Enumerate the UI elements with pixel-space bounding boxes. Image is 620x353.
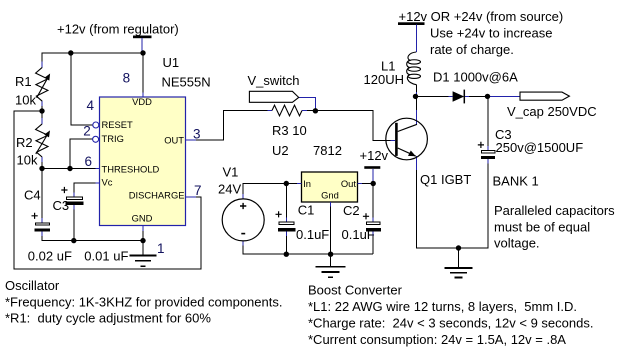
svg-text:D1 1000v@6A: D1 1000v@6A <box>433 70 518 85</box>
svg-text:Boost Converter: Boost Converter <box>308 282 403 297</box>
svg-text:8: 8 <box>123 71 131 86</box>
svg-text:voltage.: voltage. <box>494 236 540 251</box>
svg-text:R1: R1 <box>15 74 32 89</box>
svg-text:Use +24v to increase: Use +24v to increase <box>430 26 552 41</box>
svg-text:Out: Out <box>341 178 357 189</box>
svg-text:Paralleled capacitors: Paralleled capacitors <box>494 203 615 218</box>
svg-text:GND: GND <box>132 213 153 224</box>
svg-text:C1: C1 <box>298 203 315 218</box>
svg-text:6: 6 <box>85 154 93 169</box>
svg-text:BANK 1: BANK 1 <box>493 174 539 189</box>
svg-text:0.01 uF: 0.01 uF <box>84 249 128 264</box>
svg-text:0.1uF: 0.1uF <box>342 227 375 242</box>
svg-text:rate of charge.: rate of charge. <box>430 42 514 57</box>
svg-text:must be of equal: must be of equal <box>494 219 590 234</box>
svg-text:3: 3 <box>193 127 201 142</box>
svg-text:*Frequency: 1K-3KHZ for provid: *Frequency: 1K-3KHZ for provided compone… <box>5 294 282 309</box>
svg-text:Oscillator: Oscillator <box>5 278 60 293</box>
svg-text:In: In <box>303 178 311 189</box>
svg-text:7812: 7812 <box>313 143 342 158</box>
svg-text:*Charge rate: 24v < 3 seconds: *Charge rate: 24v < 3 seconds, 12v < 9 s… <box>308 316 593 331</box>
svg-text:RESET: RESET <box>102 119 134 130</box>
svg-text:Q1 IGBT: Q1 IGBT <box>420 172 471 187</box>
svg-text:0.02 uF: 0.02 uF <box>28 249 72 264</box>
svg-text:0.1uF: 0.1uF <box>296 227 329 242</box>
svg-text:OUT: OUT <box>164 135 184 146</box>
svg-text:+12v OR +24v (from source): +12v OR +24v (from source) <box>399 9 564 24</box>
svg-text:4: 4 <box>87 98 95 113</box>
svg-text:1: 1 <box>157 241 165 256</box>
svg-text:24V: 24V <box>218 182 241 197</box>
svg-text:V1: V1 <box>223 165 239 180</box>
svg-text:7: 7 <box>194 183 202 198</box>
svg-text:VDD: VDD <box>132 96 152 107</box>
svg-text:DISCHARGE: DISCHARGE <box>129 190 185 201</box>
svg-text:U1: U1 <box>163 55 180 70</box>
svg-text:C2: C2 <box>343 203 360 218</box>
svg-text:+12v (from regulator): +12v (from regulator) <box>57 22 179 37</box>
svg-text:10k: 10k <box>17 153 38 168</box>
svg-text:V_cap 250VDC: V_cap 250VDC <box>507 104 597 119</box>
svg-text:10k: 10k <box>15 93 36 108</box>
svg-text:U2: U2 <box>272 143 289 158</box>
svg-text:R2: R2 <box>16 135 33 150</box>
svg-text:250v@1500UF: 250v@1500UF <box>496 140 584 155</box>
svg-text:2: 2 <box>83 124 91 139</box>
svg-text:Gnd: Gnd <box>321 190 339 201</box>
svg-text:V_switch: V_switch <box>248 73 300 88</box>
svg-text:THRESHOLD: THRESHOLD <box>102 164 160 175</box>
svg-text:TRIG: TRIG <box>102 133 124 144</box>
svg-text:NE555N: NE555N <box>162 75 211 90</box>
svg-text:Vc: Vc <box>102 177 113 188</box>
svg-text:R3 10: R3 10 <box>272 123 307 138</box>
svg-text:+12v: +12v <box>360 148 389 163</box>
svg-text:120UH: 120UH <box>364 72 404 87</box>
svg-text:*R1: duty cycle adjustment fo: *R1: duty cycle adjustment for 60% <box>5 311 211 326</box>
svg-text:C4: C4 <box>24 188 41 203</box>
svg-text:C3: C3 <box>53 198 70 213</box>
svg-text:*L1: 22 AWG wire 12 turns, 8 l: *L1: 22 AWG wire 12 turns, 8 layers, 5mm… <box>308 299 577 314</box>
svg-text:*Current consumption: 24v = 1.: *Current consumption: 24v = 1.5A, 12v = … <box>308 332 566 347</box>
